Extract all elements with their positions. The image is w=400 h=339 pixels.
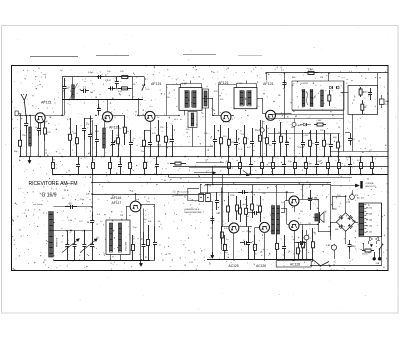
svg-text:O.M.: O.M.: [68, 220, 73, 222]
svg-text:AF116: AF116: [112, 196, 122, 200]
psu electrolytic C33: [304, 235, 309, 240]
top resistor R2: [119, 76, 122, 78]
mid ground arrow: [212, 252, 214, 257]
audio cap C29: [252, 212, 255, 214]
svg-text:O.L.: O.L.: [96, 237, 101, 239]
transistor Q6 AF116/AF117: [130, 201, 141, 212]
svg-text:OA85: OA85: [296, 124, 302, 127]
wire box bottom: [110, 255, 112, 261]
det am diode: [304, 123, 307, 126]
resistor R7: [158, 120, 160, 135]
Q7 collector wire: [239, 226, 248, 228]
wire Q2 top: [107, 100, 109, 112]
wire top bus to box: [377, 73, 379, 86]
tank mid resistor: [118, 88, 122, 90]
tank bottom wire: [62, 99, 143, 101]
svg-text:2°MF: 2°MF: [237, 83, 243, 85]
osc wire b: [84, 118, 93, 120]
tank top wire: [62, 76, 145, 78]
bridge left wire: [330, 222, 336, 224]
svg-text:FM: FM: [320, 77, 323, 79]
resistor R1: [44, 121, 46, 128]
audio takeoff box: [348, 86, 378, 115]
bus capacitor Cb19: [350, 157, 352, 165]
volume pot body 2: [119, 223, 122, 252]
osc res Ra: [70, 118, 72, 134]
switch S1: [144, 77, 146, 85]
osc cap C8: [90, 115, 92, 135]
left terminal box: [15, 111, 18, 116]
wire IF row: [202, 98, 213, 100]
resistor R6: [144, 130, 146, 140]
wire Q5 base: [257, 98, 263, 100]
transistor Q5 AF121: [266, 110, 276, 120]
bus resistor Rb9: [240, 157, 242, 163]
tank feed down: [98, 100, 100, 104]
selector ticks: [365, 204, 367, 206]
selector diode Db: [376, 237, 379, 241]
Q6 collector wire: [141, 204, 155, 206]
wire tank to bus: [62, 100, 64, 116]
mains switch S3: [380, 245, 383, 249]
osc cap C10: [130, 130, 132, 142]
svg-text:C.G.: C.G.: [146, 89, 151, 91]
input coupling cap C1: [20, 115, 22, 130]
svg-text:VOLUME: VOLUME: [126, 241, 128, 251]
loudspeaker LS: [319, 212, 321, 223]
lower h wire right: [330, 151, 388, 153]
osc res Rb: [76, 125, 78, 138]
supply bus (mid, second): [173, 166, 388, 168]
wire Q3 collector: [155, 115, 179, 117]
svg-text:B30: B30: [333, 209, 338, 211]
svg-text:2x220: 2x220: [362, 254, 368, 256]
det diode D2: [336, 86, 339, 89]
volume pot body: [110, 223, 113, 252]
Q9 collector: [299, 224, 303, 226]
det electrolytic: [292, 122, 296, 126]
cap C15: [252, 128, 254, 141]
top cap C5: [97, 76, 100, 78]
psu electrolytic C32: [349, 240, 351, 245]
svg-text:6,8pF: 6,8pF: [88, 72, 94, 74]
det resistor Rdc: [314, 124, 317, 126]
svg-text:1Ω: 1Ω: [308, 223, 311, 225]
rectifier bridge B1: [336, 213, 355, 231]
volume control box: [106, 220, 130, 255]
svg-text:AM: AM: [292, 76, 295, 79]
transistor Q7 AC125: [229, 223, 239, 233]
svg-text:O.C.: O.C.: [79, 221, 84, 223]
selector diode Da: [370, 237, 373, 241]
resistor R22: [362, 100, 364, 104]
resistor R25: [148, 225, 150, 240]
capacitor C2: [38, 123, 40, 129]
wire mid to audio: [222, 250, 228, 252]
bus capacitor Cb10: [250, 157, 252, 165]
tuning gang cap CV2: [74, 231, 76, 245]
audio wire v3: [252, 185, 254, 197]
svg-text:100μ: 100μ: [316, 161, 322, 163]
svg-text:G 16/9: G 16/9: [42, 193, 57, 199]
svg-text:1Ω: 1Ω: [300, 211, 303, 213]
wire Q6 up: [135, 194, 137, 201]
cap C17: [286, 130, 288, 142]
svg-text:GIRADISCHI E: GIRADISCHI E: [185, 208, 200, 211]
wire to Q10: [285, 200, 289, 202]
det diode D1: [330, 86, 333, 89]
antenna lead wire: [26, 115, 28, 123]
top bus resistor R20: [304, 72, 308, 74]
voltage selector box: [359, 203, 382, 237]
transistor Q2 AF115: [103, 112, 113, 122]
audio res Rf: [276, 233, 278, 243]
audio cap Cg: [296, 242, 300, 244]
top bus right section: [266, 72, 388, 74]
wire tuning row: [53, 206, 92, 208]
tank cap C4: [81, 90, 84, 92]
svg-text:AF115: AF115: [109, 126, 119, 130]
audio resistor R31: [246, 196, 248, 208]
audio cap C28: [248, 227, 250, 243]
antenna: [21, 94, 27, 115]
svg-text:ant. ferrite: ant. ferrite: [33, 203, 44, 206]
bridge right wire: [355, 222, 358, 224]
svg-text:REGISTRATORE: REGISTRATORE: [185, 211, 203, 214]
psu right edge wire: [381, 203, 383, 266]
long drop wire: [92, 175, 94, 213]
Q4 bias resistor R10: [220, 125, 222, 138]
cap C25: [143, 232, 145, 245]
det resistor R19: [338, 134, 340, 143]
audio cap Ce: [240, 242, 244, 244]
det resistor R18: [324, 130, 326, 140]
wire audio top: [92, 194, 205, 196]
osc cap Ca: [84, 118, 86, 128]
wire T2 top feed: [236, 84, 238, 88]
Q3 emitter parts: [150, 121, 152, 130]
Q10 emitter: [294, 206, 296, 212]
audio res Re: [252, 196, 254, 204]
mains plug: [374, 252, 376, 258]
bus resistor Rb20: [360, 157, 362, 163]
Q10 collector: [299, 199, 303, 201]
cap C12: [172, 125, 174, 140]
bus resistor Rb6: [144, 157, 146, 163]
wire Q6 down: [140, 210, 142, 260]
audio wire v2: [222, 175, 224, 227]
svg-text:1°MF: 1°MF: [182, 83, 188, 85]
wire Q6 base: [126, 206, 131, 208]
bus resistor Rb12: [272, 157, 274, 163]
output transformer T6: [315, 214, 318, 221]
bus resistor Rb0: [52, 157, 54, 163]
mid cap C27: [212, 216, 214, 219]
bus resistor Rb3: [110, 157, 112, 163]
resistor R21: [360, 87, 362, 89]
ground bus (tuner): [53, 260, 150, 262]
svg-text:AC126: AC126: [256, 264, 266, 268]
earpiece Z1: [380, 99, 385, 105]
bus resistor Rb17: [328, 157, 330, 163]
aux plug circle: [350, 195, 355, 200]
audio cap Cd: [238, 192, 242, 194]
resistor R13: [260, 120, 262, 135]
audio wire v1: [212, 166, 214, 185]
audio resistor R29: [240, 200, 242, 208]
wire J down 2: [221, 187, 223, 250]
interstage transformer T5: [272, 206, 275, 235]
det resistor Rda: [329, 90, 331, 95]
pickup connector J2: [205, 194, 210, 202]
resistor R12: [244, 125, 246, 138]
bus resistor Rb18: [338, 157, 340, 163]
cap C21: [370, 88, 372, 93]
svg-text:4k7: 4k7: [362, 91, 367, 94]
tank cap C3: [64, 78, 66, 87]
det out wire: [341, 92, 349, 94]
audio second wire: [200, 192, 294, 194]
detector box: [292, 81, 344, 110]
ground bus (mid): [53, 174, 388, 176]
audio resistor R30: [254, 235, 256, 244]
box down wire: [352, 114, 354, 151]
transistor Q9 AC128: [289, 221, 299, 231]
junction dots bus 156: [19, 156, 21, 158]
svg-text:16Ω: 16Ω: [385, 101, 389, 103]
trimmer row: [112, 130, 114, 142]
tank mid wire: [111, 88, 133, 90]
supply bus (mid, upper): [20, 156, 388, 158]
resistor R15: [280, 122, 282, 136]
flow arrow: [243, 171, 249, 176]
det out wire 1: [292, 110, 344, 112]
ground arrow left block: [140, 260, 142, 265]
psu dropper resistor: [362, 250, 365, 252]
audio wire v5: [286, 192, 288, 201]
bus capacitor Cb13: [284, 157, 286, 165]
Q4 emitter resistor R11: [228, 128, 230, 139]
transistor Q3 AF121: [145, 111, 155, 121]
audio top wire: [205, 184, 331, 186]
svg-text:Con Musicassette: Con Musicassette: [173, 191, 190, 194]
Q5 resistor R14: [266, 125, 268, 138]
RF coil L1: [29, 127, 32, 146]
headphone arrow: [331, 185, 356, 187]
svg-text:100μ: 100μ: [246, 231, 252, 233]
tank coil L2: [72, 85, 75, 99]
det cap C18: [302, 130, 304, 142]
svg-text:AF121: AF121: [263, 82, 274, 86]
transistor Q10 AC128: [289, 196, 299, 206]
ferrite antenna rod: [49, 212, 54, 258]
Q8 collector to T5: [264, 233, 266, 260]
det coil Lb: [310, 90, 313, 107]
audio wire T5 to output: [281, 208, 287, 210]
osc coil L3: [103, 128, 106, 148]
wire top bus drop: [266, 73, 268, 80]
Q9 emitter: [294, 231, 296, 260]
det out wire 3: [266, 118, 344, 120]
mid resistor R27: [221, 226, 223, 232]
Q7 base wire: [222, 226, 229, 228]
tuning cap C23: [84, 231, 86, 245]
wire mid row: [53, 230, 92, 232]
svg-text:1M: 1M: [120, 215, 123, 217]
wire Q1 emitter down: [40, 123, 42, 135]
driver resistor R32: [260, 196, 262, 206]
junction dots bus 174: [52, 174, 54, 176]
osc wire c: [64, 98, 66, 115]
resistor R24: [132, 235, 134, 245]
bus resistor Rb2: [92, 157, 94, 163]
bus capacitor Cb1: [78, 157, 80, 165]
svg-text:e autoradio GM: e autoradio GM: [173, 194, 188, 197]
det coil Lc: [321, 90, 324, 107]
audio cap Cc: [216, 192, 218, 200]
audio wire v4: [259, 227, 261, 229]
osc wire a: [92, 120, 94, 157]
mains switch S2: [321, 262, 330, 266]
wire J down 1: [212, 201, 214, 258]
svg-text:RICEVITORE AM–FM: RICEVITORE AM–FM: [29, 181, 78, 187]
IF transformer can T2: [234, 88, 257, 109]
IF transformer can T1: [179, 88, 202, 111]
osc resistor R5: [124, 115, 126, 127]
scan artifact dashes: [30, 56, 78, 58]
mains transformer T7: [359, 204, 364, 236]
T1 secondary coil: [191, 113, 194, 126]
audio cap C30: [310, 190, 312, 199]
resistor R8: [166, 122, 168, 136]
output coupling: [303, 224, 318, 226]
svg-text:CUFFIA: CUFFIA: [366, 182, 374, 185]
svg-text:FERRITE: FERRITE: [57, 237, 59, 247]
bus capacitor Cb16: [316, 157, 318, 165]
audio resistor R33: [302, 230, 304, 242]
capacitor C11: [150, 130, 152, 142]
audio bottom bus: [207, 259, 313, 261]
connector feed wires: [200, 184, 202, 194]
det cap C19: [316, 130, 318, 142]
gang arrow 1: [62, 239, 80, 253]
wire T6 top: [318, 200, 320, 232]
det out wire 2: [270, 114, 344, 116]
bus resistor Rb14: [294, 157, 296, 163]
svg-text:AC128: AC128: [290, 263, 300, 267]
link wire C2: [196, 162, 224, 164]
osc resistor R4: [118, 125, 120, 138]
wire T1 top feed: [180, 84, 182, 88]
link resistor: [170, 163, 175, 165]
psu down arrow: [370, 245, 372, 247]
feedback wire mid: [169, 177, 352, 179]
cap C21b: [350, 133, 352, 138]
bus-psu diagonal link: [313, 260, 321, 266]
cap C13: [214, 125, 216, 140]
audio cap Cf: [284, 235, 286, 246]
bridge top wire: [345, 196, 347, 213]
psu electrolytic C31: [331, 245, 336, 250]
bus resistor Rb8: [228, 157, 230, 163]
cap C14: [236, 130, 238, 142]
audio resistor R28: [228, 196, 230, 206]
bridge bottom wire: [345, 231, 347, 244]
svg-text:ASCOLTO: ASCOLTO: [366, 185, 377, 188]
audio res Rg: [312, 228, 314, 242]
det right edge: [343, 81, 345, 151]
link wire 2: [189, 167, 231, 169]
link wire 3: [194, 172, 213, 174]
bus resistor Rb21: [372, 157, 374, 163]
wire Q4 base: [213, 115, 221, 117]
svg-text:AC 107: AC 107: [357, 197, 365, 200]
pickup connector J1: [199, 194, 204, 202]
label AC128 (lower): [276, 261, 311, 267]
tuning cap C24: [92, 231, 94, 245]
det cap C20: [330, 134, 332, 145]
gang arrow 2: [80, 239, 98, 253]
bus capacitor Cb7: [156, 157, 158, 165]
det coil La: [302, 90, 305, 107]
bus resistor Rb5: [130, 157, 132, 163]
bus resistor Rb15: [306, 157, 308, 163]
junction dots misc: [91, 182, 93, 184]
audio res Rd: [236, 196, 238, 205]
feedback wire: [248, 212, 252, 214]
svg-text:AC125: AC125: [229, 264, 239, 268]
transistor Q1 AF121: [35, 113, 45, 123]
svg-text:S 4752: S 4752: [301, 83, 309, 85]
svg-text:AF117: AF117: [112, 201, 122, 205]
left ground arrow: [29, 157, 31, 162]
svg-text:pick-up: pick-up: [204, 185, 212, 187]
svg-text:AF121: AF121: [151, 82, 162, 86]
bus resistor Rb11: [262, 157, 264, 163]
cap C26: [154, 226, 156, 242]
wire bus lower-left: [92, 182, 331, 184]
det coupling link: [306, 91, 308, 105]
IF secondary T1b: [203, 89, 209, 108]
AGC wire 2: [140, 146, 213, 148]
psu bottom wire: [310, 265, 382, 267]
audio res Rc: [224, 235, 226, 244]
svg-text:AF121: AF121: [41, 101, 52, 105]
wire Q3 base: [138, 115, 145, 117]
headphone jack bar: [360, 181, 362, 189]
det resistor R17: [310, 130, 312, 140]
Q5 emitter electrolytic: [260, 128, 264, 132]
wire Q2 row: [113, 115, 126, 117]
psu plug wires: [363, 243, 365, 251]
osc cap C9: [96, 125, 98, 140]
transistor Q8 AC126: [260, 222, 270, 232]
schematic border frame: [12, 66, 389, 271]
transistor Q4 AF121: [221, 112, 231, 122]
svg-text:6,8 82: 6,8 82: [105, 80, 112, 82]
AGC wire: [268, 133, 340, 135]
cap C22 on row: [65, 206, 70, 208]
bus capacitor Cb4: [120, 157, 122, 165]
wire Q4 collector: [231, 115, 234, 117]
Q7 emitter: [233, 233, 235, 260]
wire Q1 base-collector row: [20, 115, 35, 117]
psu resistor R34: [298, 242, 300, 248]
svg-text:50μ: 50μ: [351, 245, 356, 248]
junction dots base wire: [19, 115, 21, 117]
tank left wire: [62, 77, 64, 100]
tuning gang cap CV1: [67, 231, 69, 245]
